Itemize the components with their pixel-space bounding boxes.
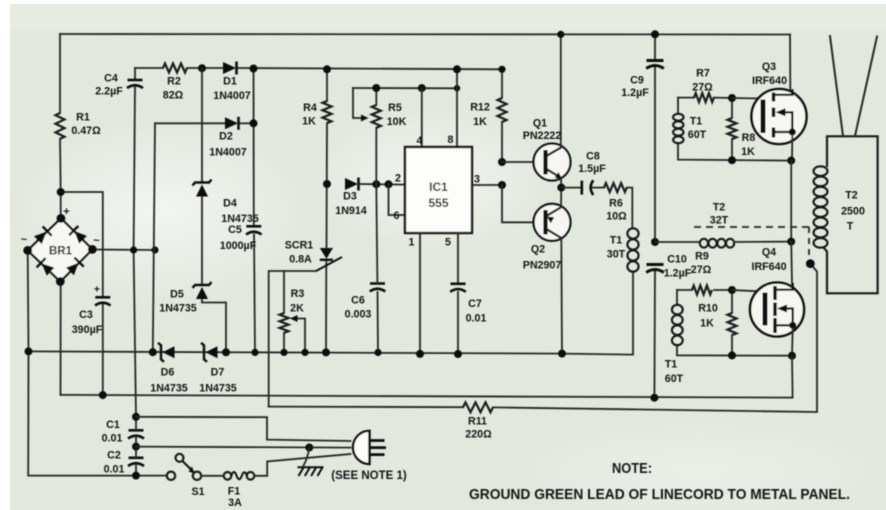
node dot BR1-/D2 vertical junction <box>151 246 158 253</box>
svg-text:27Ω: 27Ω <box>691 264 712 276</box>
transformer T2 secondary box <box>824 136 878 293</box>
wire C1/C2 mid to plug neutral lead <box>136 447 351 448</box>
capacitor C2 <box>129 456 144 459</box>
node dot bus/AC-left junction <box>25 347 33 355</box>
svg-text:D4: D4 <box>223 198 237 210</box>
wire tap to 32T <box>655 241 700 243</box>
node dot Q2 collector bus <box>558 350 566 358</box>
svg-text:0.01: 0.01 <box>102 433 123 445</box>
svg-text:C8: C8 <box>586 151 600 163</box>
svg-text:2.2µF: 2.2µF <box>95 86 123 98</box>
node dot Q1 base tee <box>498 158 506 166</box>
node dot C1 top <box>132 413 140 421</box>
svg-text:Q1: Q1 <box>533 118 547 130</box>
diode D1 <box>223 62 236 74</box>
wire C4 vertical down to C1 chain <box>134 68 136 80</box>
wire C3 bottom to wire A <box>102 305 104 396</box>
zener D5 <box>193 282 212 288</box>
resistor R6 <box>604 183 627 192</box>
svg-text:1K: 1K <box>741 146 755 158</box>
wire earth stem <box>304 448 310 466</box>
wire BR1 bottom to wire A <box>60 281 62 395</box>
node dot pin8 rail <box>453 65 461 73</box>
node dot Q4 source junction <box>788 352 796 360</box>
node dot D2 cathode <box>250 119 258 127</box>
wire 32T to Q3/Q4 node <box>734 241 791 243</box>
wire pin3 out <box>472 184 502 186</box>
svg-text:3A: 3A <box>228 497 242 509</box>
node dot C5 bus <box>251 349 258 356</box>
svg-text:BR1: BR1 <box>49 246 73 258</box>
node dot pin4 top <box>418 84 426 92</box>
svg-text:1N4007: 1N4007 <box>213 90 250 102</box>
node dot D3 anode <box>323 180 331 188</box>
node dot Q1 collector rail <box>557 31 564 38</box>
svg-text:2: 2 <box>395 173 401 185</box>
svg-text:C7: C7 <box>468 298 482 310</box>
wire BR1 left AC vertical down to S1 row <box>28 251 167 476</box>
transistor Q4 IRF640 <box>750 283 804 337</box>
svg-text:0.01: 0.01 <box>104 464 125 476</box>
svg-text:C2: C2 <box>107 450 121 462</box>
svg-text:C5: C5 <box>228 224 242 236</box>
inductor T2 32T primary <box>700 239 708 248</box>
node dot 32T right node <box>787 238 795 246</box>
wire Q2 collector to bus <box>560 238 563 354</box>
svg-text:PN2907: PN2907 <box>523 260 562 272</box>
svg-text:555: 555 <box>428 196 448 210</box>
svg-text:3: 3 <box>474 174 480 186</box>
node dot C9/C10 tap <box>651 238 659 246</box>
inductor T1 60T upper <box>673 114 683 121</box>
svg-text:C3: C3 <box>79 309 93 321</box>
resistor R11 <box>463 402 493 412</box>
resistor R9 <box>692 286 712 295</box>
svg-text:~: ~ <box>93 235 100 247</box>
wire Q4 cell rectangle <box>677 289 692 291</box>
potentiometer R3 <box>283 271 285 313</box>
svg-text:0.47Ω: 0.47Ω <box>71 125 101 137</box>
wire S1 to F1 <box>201 475 223 477</box>
svg-text:R3: R3 <box>291 288 305 300</box>
svg-text:4: 4 <box>417 135 423 147</box>
wire R6 to T1 30T <box>627 188 632 228</box>
resistor R10 <box>731 290 733 313</box>
node dot C1/C2 mid <box>132 443 140 451</box>
wire second rail (C4 corner through R2,D1 to R12) <box>135 67 163 69</box>
node dot D1 cathode <box>250 65 258 73</box>
svg-text:+: + <box>94 284 100 296</box>
svg-text:1: 1 <box>409 237 415 249</box>
wire D5 anode jog to bus <box>202 299 226 352</box>
capacitor C9 <box>647 59 664 62</box>
node dot R3 bottom <box>280 349 287 356</box>
svg-text:R7: R7 <box>696 68 710 80</box>
resistor R2 <box>163 64 187 73</box>
wire D3 to pin2 <box>359 183 405 186</box>
svg-text:R12: R12 <box>470 102 490 114</box>
wire D4/D5 vertical <box>201 68 203 182</box>
svg-text:SCR1: SCR1 <box>285 240 314 252</box>
ic op U1 555 box <box>405 147 472 233</box>
svg-text:6: 6 <box>394 210 400 222</box>
svg-text:1K: 1K <box>700 318 714 330</box>
node dot C9 rail <box>651 30 659 38</box>
wire pin8 <box>456 69 458 147</box>
svg-text:D2: D2 <box>219 131 233 143</box>
capacitor C6 <box>370 282 385 285</box>
svg-text:R5: R5 <box>388 102 402 114</box>
node dot T2 secondary return <box>806 259 815 268</box>
core dashed line horizontal <box>694 226 809 228</box>
node dot D2-anode rail junction <box>198 64 206 72</box>
svg-text:D6: D6 <box>161 367 175 379</box>
node dot emitter junction <box>557 184 565 192</box>
node dot R12 rail <box>498 66 505 73</box>
svg-text:82Ω: 82Ω <box>163 90 184 102</box>
node dot R9/R10 gate <box>728 286 736 294</box>
node junction dot BR1+ feed <box>57 188 65 196</box>
wire D1/D2 cathodes vertical (to C5) <box>253 69 255 227</box>
resistor R4 <box>323 101 332 123</box>
svg-text:GROUND GREEN LEAD OF LINECORD: GROUND GREEN LEAD OF LINECORD TO METAL P… <box>469 486 850 503</box>
transistor Q2 PN2907 <box>534 204 571 241</box>
wire Q3 source <box>791 135 793 161</box>
wire Q4 source <box>791 329 794 356</box>
wire F1 to plug line lead <box>254 454 350 476</box>
node dot R3 wiper bottom <box>301 349 308 356</box>
svg-text:30T: 30T <box>607 249 626 261</box>
svg-text:1.2µF: 1.2µF <box>621 87 649 99</box>
svg-text:0.8A: 0.8A <box>289 254 312 266</box>
wire Q1 collector to rail <box>560 34 562 148</box>
svg-text:2K: 2K <box>290 303 304 315</box>
svg-text:Q2: Q2 <box>531 244 545 256</box>
wire Q4 gate lead <box>732 290 764 292</box>
svg-text:(SEE NOTE 1): (SEE NOTE 1) <box>331 470 407 482</box>
svg-text:1000µF: 1000µF <box>220 240 257 252</box>
node dot pin3 tee <box>498 181 506 189</box>
node dot pin8 row <box>454 85 460 91</box>
wire D2 row <box>155 122 225 124</box>
svg-text:F1: F1 <box>228 486 241 498</box>
node dot pin1 bus <box>416 350 424 358</box>
resistor R1 <box>56 113 65 139</box>
svg-text:T2: T2 <box>845 190 858 202</box>
wire A (DC return, BR1- to Q4 source) <box>61 395 793 398</box>
capacitor C10 <box>647 263 664 266</box>
svg-text:390µF: 390µF <box>72 324 103 336</box>
wire BR1 right node to D2-left vertical <box>92 249 155 252</box>
svg-text:IRF640: IRF640 <box>751 261 786 273</box>
node dot C6 bus <box>374 349 381 356</box>
zener D6 <box>158 343 164 362</box>
svg-text:1N914: 1N914 <box>335 205 367 217</box>
ac plug <box>353 431 370 464</box>
svg-text:D5: D5 <box>170 289 184 301</box>
svg-text:C1: C1 <box>106 419 120 431</box>
svg-text:0.003: 0.003 <box>345 309 372 321</box>
svg-text:220Ω: 220Ω <box>465 429 492 441</box>
paper tint patches <box>10 4 886 30</box>
node dot Q3 source junction <box>787 157 795 165</box>
fuse F1 <box>224 472 232 480</box>
diode D2 <box>225 117 238 129</box>
wire left vertical (rail to R1 to BR1+) <box>59 34 61 113</box>
inductor T2 2500T secondary <box>814 166 828 176</box>
svg-text:60T: 60T <box>665 373 684 385</box>
svg-text:Q3: Q3 <box>762 61 776 73</box>
node dot R10 bottom <box>728 351 736 359</box>
capacitor C1 <box>129 429 144 432</box>
wire pin4 <box>421 88 423 147</box>
node dot R5 top <box>372 84 380 92</box>
wire pin1 to bus <box>419 233 421 354</box>
capacitor C4 <box>128 79 143 82</box>
svg-text:R8: R8 <box>742 132 756 144</box>
node dot earth tap <box>305 444 313 452</box>
node dots BR1 vertices <box>57 214 66 223</box>
node dot pin5 bus <box>454 350 462 358</box>
wire Q2 emitter to node <box>560 188 562 207</box>
node dot R4 top <box>323 65 331 73</box>
svg-text:2500: 2500 <box>841 206 865 218</box>
node dot C2 bottom <box>132 472 140 480</box>
node V+ to C3 jog <box>61 192 103 297</box>
svg-text:R11: R11 <box>468 416 487 428</box>
svg-text:10Ω: 10Ω <box>606 211 627 223</box>
wire Q4 drain <box>790 242 793 284</box>
svg-text:T: T <box>847 221 854 233</box>
transistor Q3 IRF640 <box>752 89 807 144</box>
node dot D7 right <box>222 348 230 356</box>
node dot D6 left <box>149 348 157 356</box>
core dashed line vertical <box>808 227 810 258</box>
wire R4-SCR vertical <box>326 69 328 101</box>
wire pin6 bracket <box>389 184 406 215</box>
diode D3 <box>345 178 358 190</box>
resistor R12 <box>501 69 503 98</box>
wire pin5/C7 <box>457 233 459 283</box>
svg-text:NOTE:: NOTE: <box>612 461 652 477</box>
bridge rectifier BR1 diamond <box>28 218 93 281</box>
node dot R8 bottom <box>728 156 736 164</box>
wire Q3 gate lead <box>732 97 761 100</box>
svg-text:1N4735: 1N4735 <box>150 383 187 395</box>
svg-text:IC1: IC1 <box>429 180 448 194</box>
svg-text:C4: C4 <box>104 73 118 85</box>
wire main negative bus <box>29 351 563 353</box>
svg-text:R1: R1 <box>76 112 90 124</box>
switch S1 <box>167 472 175 480</box>
svg-text:1N4007: 1N4007 <box>209 147 246 159</box>
wire Q3 cell rectangle <box>678 97 694 99</box>
capacitor C8 <box>561 187 581 189</box>
zener D4 <box>193 180 212 186</box>
resistor R8 <box>731 98 733 118</box>
svg-text:D1: D1 <box>223 76 237 88</box>
zener D7 <box>201 343 207 362</box>
capacitor C3 <box>95 296 110 299</box>
node dot SCR cathode bus <box>322 348 330 356</box>
transistor Q1 PN2222 <box>534 144 571 181</box>
svg-text:1K: 1K <box>302 116 316 128</box>
svg-text:1.2µF: 1.2µF <box>664 268 692 280</box>
scr SCR1 <box>320 248 333 259</box>
wire R11 run to T2 secondary return <box>269 406 463 409</box>
svg-text:32T: 32T <box>710 215 729 227</box>
svg-text:27Ω: 27Ω <box>692 82 713 94</box>
svg-text:R9: R9 <box>695 251 709 263</box>
inductor T1 30T primary <box>627 228 638 238</box>
wire Q1 emitter to node <box>560 178 562 188</box>
antenna discharge left <box>830 36 843 136</box>
wire top V+ rail <box>60 33 790 36</box>
node dot C10 on wire A <box>650 394 658 402</box>
svg-text:S1: S1 <box>191 486 204 498</box>
svg-text:1N4735: 1N4735 <box>199 383 236 395</box>
svg-text:T1: T1 <box>610 235 623 247</box>
svg-text:+: + <box>63 206 69 218</box>
wire base net Q1/Q2 <box>502 161 534 163</box>
wire Q3 drain <box>789 35 791 90</box>
svg-text:T1: T1 <box>665 359 678 371</box>
wire bus to T1-30T bottom <box>562 272 633 355</box>
node dot C4/BR1- junction <box>130 246 137 253</box>
wire Q4 source to wire A <box>791 356 794 398</box>
wire SCR gate run <box>269 271 316 407</box>
svg-text:C9: C9 <box>630 75 644 87</box>
node dot R5/C6 tap <box>372 180 380 188</box>
wire D2-left vertical <box>153 123 155 352</box>
svg-text:D7: D7 <box>211 367 225 379</box>
svg-text:R10: R10 <box>698 303 718 315</box>
svg-text:IRF640: IRF640 <box>752 75 787 87</box>
wire C1 top to plug hot lead <box>136 417 351 441</box>
node dot R7/R8 gate <box>728 94 736 102</box>
wire Vcc row (R5 top to pin8) <box>353 87 457 89</box>
svg-text:R6: R6 <box>609 198 623 210</box>
svg-text:1K: 1K <box>473 116 487 128</box>
svg-text:PN2222: PN2222 <box>523 130 562 142</box>
node dot pin2/6 tie <box>385 180 393 188</box>
svg-text:R2: R2 <box>167 76 181 88</box>
svg-text:Q4: Q4 <box>762 247 776 259</box>
svg-text:60T: 60T <box>688 129 707 141</box>
svg-text:1.5µF: 1.5µF <box>578 163 606 175</box>
potentiometer R5 <box>375 88 377 105</box>
svg-text:1N4735: 1N4735 <box>159 303 196 315</box>
svg-text:5: 5 <box>445 237 451 249</box>
wire Q3 source to 32T node <box>790 161 792 242</box>
capacitor C7 <box>451 282 466 285</box>
ground symbol (chassis) <box>298 466 324 468</box>
svg-text:10K: 10K <box>387 116 407 128</box>
svg-text:C6: C6 <box>351 295 365 307</box>
svg-text:C10: C10 <box>667 254 687 266</box>
svg-text:T2: T2 <box>713 202 726 214</box>
svg-text:8: 8 <box>448 134 454 146</box>
svg-text:~: ~ <box>21 234 28 246</box>
svg-text:0.01: 0.01 <box>466 313 487 325</box>
node dot C3 on wire A <box>99 391 107 399</box>
resistor R7 <box>694 93 714 102</box>
svg-text:T1: T1 <box>690 116 703 128</box>
wire C9-C10 column <box>654 34 656 60</box>
capacitor C5 <box>246 225 261 228</box>
svg-text:R4: R4 <box>303 102 317 114</box>
antenna discharge right <box>855 37 877 137</box>
bridge BR1 diodes <box>33 226 51 244</box>
svg-text:D3: D3 <box>343 191 357 203</box>
inductor T1 60T lower <box>672 305 683 315</box>
